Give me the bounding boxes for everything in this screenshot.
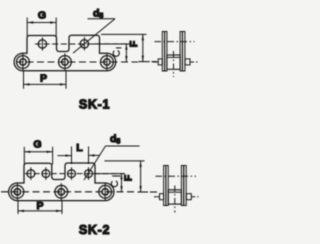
SK-1 dimension G extension lines <box>26 18 28 37</box>
svg-text:P: P <box>40 72 47 84</box>
SK-1 P arrowheads <box>24 83 67 85</box>
SK-2 dimension F extension line <box>105 160 145 162</box>
SK-2 d5 leader underline <box>106 145 140 147</box>
SK-2 roller 1 <box>11 183 24 200</box>
SK-2 end view: pin stub left <box>160 194 164 200</box>
SK-2 dimension L line right <box>89 154 100 156</box>
svg-text:SK-1: SK-1 <box>79 98 110 112</box>
SK-2 d5 leader diagonal <box>84 146 106 180</box>
SK-2 P arrowheads <box>18 210 62 212</box>
SK-2 attachment hole 4 <box>85 167 93 180</box>
SK-1 roller 2 <box>59 53 72 70</box>
SK-1 dimension G line <box>27 22 56 24</box>
svg-text:F: F <box>123 174 135 181</box>
SK-1 end view: hole centerline <box>155 41 195 43</box>
SK-1 dimension F extension line <box>101 33 147 35</box>
SK-1 dimension P line <box>24 83 67 85</box>
SK-2 dimension P extension lines <box>17 200 19 214</box>
SK-1 end view: vertical centerline <box>173 51 175 77</box>
SK-1 attachment hole 1 <box>38 37 46 50</box>
SK-2 end view: hole centerline <box>156 175 197 177</box>
SK-1 end view: roller <box>167 55 180 69</box>
SK-1 side view: chain link band outline <box>14 35 116 71</box>
SK-2 dimension G extension lines <box>23 147 25 165</box>
SK-2 dimension F line <box>140 161 142 192</box>
SK-1 end view: pin stub right <box>185 59 190 65</box>
SK-2 side view: chain link band outline <box>9 163 114 201</box>
SK-2 dimension S extension line <box>93 173 125 175</box>
SK-1 end view: right upright plates <box>180 32 185 72</box>
SK-1 attachment hole 2 <box>80 37 88 50</box>
SK-1 centerline baseline segment right <box>139 61 150 63</box>
SK-2 label S <box>111 181 117 187</box>
SK-1 end view: pin centerline <box>153 61 159 63</box>
SK-1 dimension P extension lines <box>23 71 25 89</box>
SK-2 attachment hole 2 <box>42 167 50 180</box>
SK-2 end view: bushing line <box>168 191 181 193</box>
SK-1 F arrowheads <box>142 34 144 61</box>
SK-2 S arrowheads <box>120 174 122 192</box>
SK-1 chain centerline <box>16 61 138 63</box>
svg-text:G: G <box>38 9 46 21</box>
SK-2 hole centerline <box>25 173 125 175</box>
SK-1 G arrowheads <box>27 21 56 23</box>
SK-2 band top edge right <box>95 182 105 184</box>
SK-2 G arrowheads <box>24 151 52 153</box>
svg-text:P: P <box>36 200 43 212</box>
SK-1 d5 leader underline <box>88 18 116 20</box>
svg-text:SK-2: SK-2 <box>79 223 110 237</box>
SK-1 end view: bushing line <box>167 56 180 58</box>
SK-1 hole centerline <box>35 43 130 45</box>
SK-1 roller 3 <box>101 53 114 70</box>
SK-2 roller 2 <box>55 183 68 200</box>
SK-1 end view: left upright plates <box>162 32 167 72</box>
SK-1 d5 leader diagonal <box>73 19 115 53</box>
SK-2 end view: right upright plates <box>181 166 186 206</box>
SK-2 dimension S line <box>121 174 123 192</box>
SK-1 dimension S extension line <box>91 43 130 45</box>
SK-1 dimension F line <box>142 34 144 61</box>
SK-2 dimension P line <box>18 210 62 212</box>
SK-2 end view: roller <box>168 190 181 204</box>
SK-2 end view: vertical centerline <box>174 186 176 213</box>
SK-1 centerline dash to end view <box>152 61 157 63</box>
svg-text:G: G <box>33 139 41 151</box>
SK-1 dimension S line <box>125 44 127 62</box>
SK-2 dimension G line <box>24 151 52 153</box>
SK-2 attachment hole 3 <box>68 167 76 180</box>
SK-1 end view: pin stub left <box>158 59 162 65</box>
SK-2 F arrowheads <box>139 161 141 192</box>
SK-2 L arrowheads <box>66 154 95 157</box>
SK-1 roller 1 <box>17 53 30 70</box>
SK-2 end view: left upright plates <box>164 166 169 206</box>
SK-2 end view: pin centerline <box>154 196 160 198</box>
SK-1 label S <box>113 50 119 56</box>
SK-2 end view: pin stub right <box>186 194 191 200</box>
SK-2 band top edge left <box>17 182 24 184</box>
SK-2 dimension L extension lines <box>71 147 73 165</box>
SK-2 attachment hole 1 <box>27 167 35 180</box>
SK-2 dimension L line left <box>58 155 72 157</box>
SK-2 roller 3 <box>99 183 112 200</box>
SK-1 S arrowheads <box>125 44 127 62</box>
SK-2 centerline baseline segment right <box>138 191 149 193</box>
SK-2 centerline dash to end view <box>150 191 157 193</box>
SK-2 chain centerline <box>1 191 137 193</box>
svg-text:L: L <box>76 142 83 154</box>
